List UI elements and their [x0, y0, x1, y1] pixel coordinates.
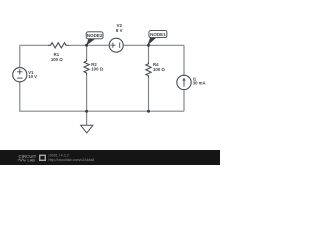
- svg-text:http://circuitlab.com/c244da8: http://circuitlab.com/c244da8: [49, 158, 95, 162]
- svg-text:LAB: LAB: [28, 159, 36, 163]
- svg-text:NODE1: NODE1: [150, 32, 166, 37]
- svg-text:NODE2: NODE2: [87, 33, 103, 38]
- svg-text:10 V: 10 V: [28, 74, 37, 79]
- svg-text:30 mA: 30 mA: [193, 81, 206, 86]
- svg-text:100 Ω: 100 Ω: [51, 57, 63, 62]
- svg-text:100 Ω: 100 Ω: [153, 67, 165, 72]
- svg-text:8 V: 8 V: [116, 28, 123, 33]
- svg-text:100 Ω: 100 Ω: [91, 67, 103, 72]
